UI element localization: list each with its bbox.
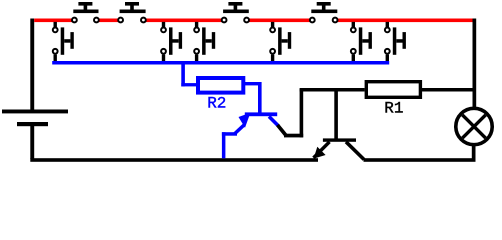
svg-text:R2: R2 [207, 95, 226, 113]
svg-text:R1: R1 [384, 99, 403, 117]
